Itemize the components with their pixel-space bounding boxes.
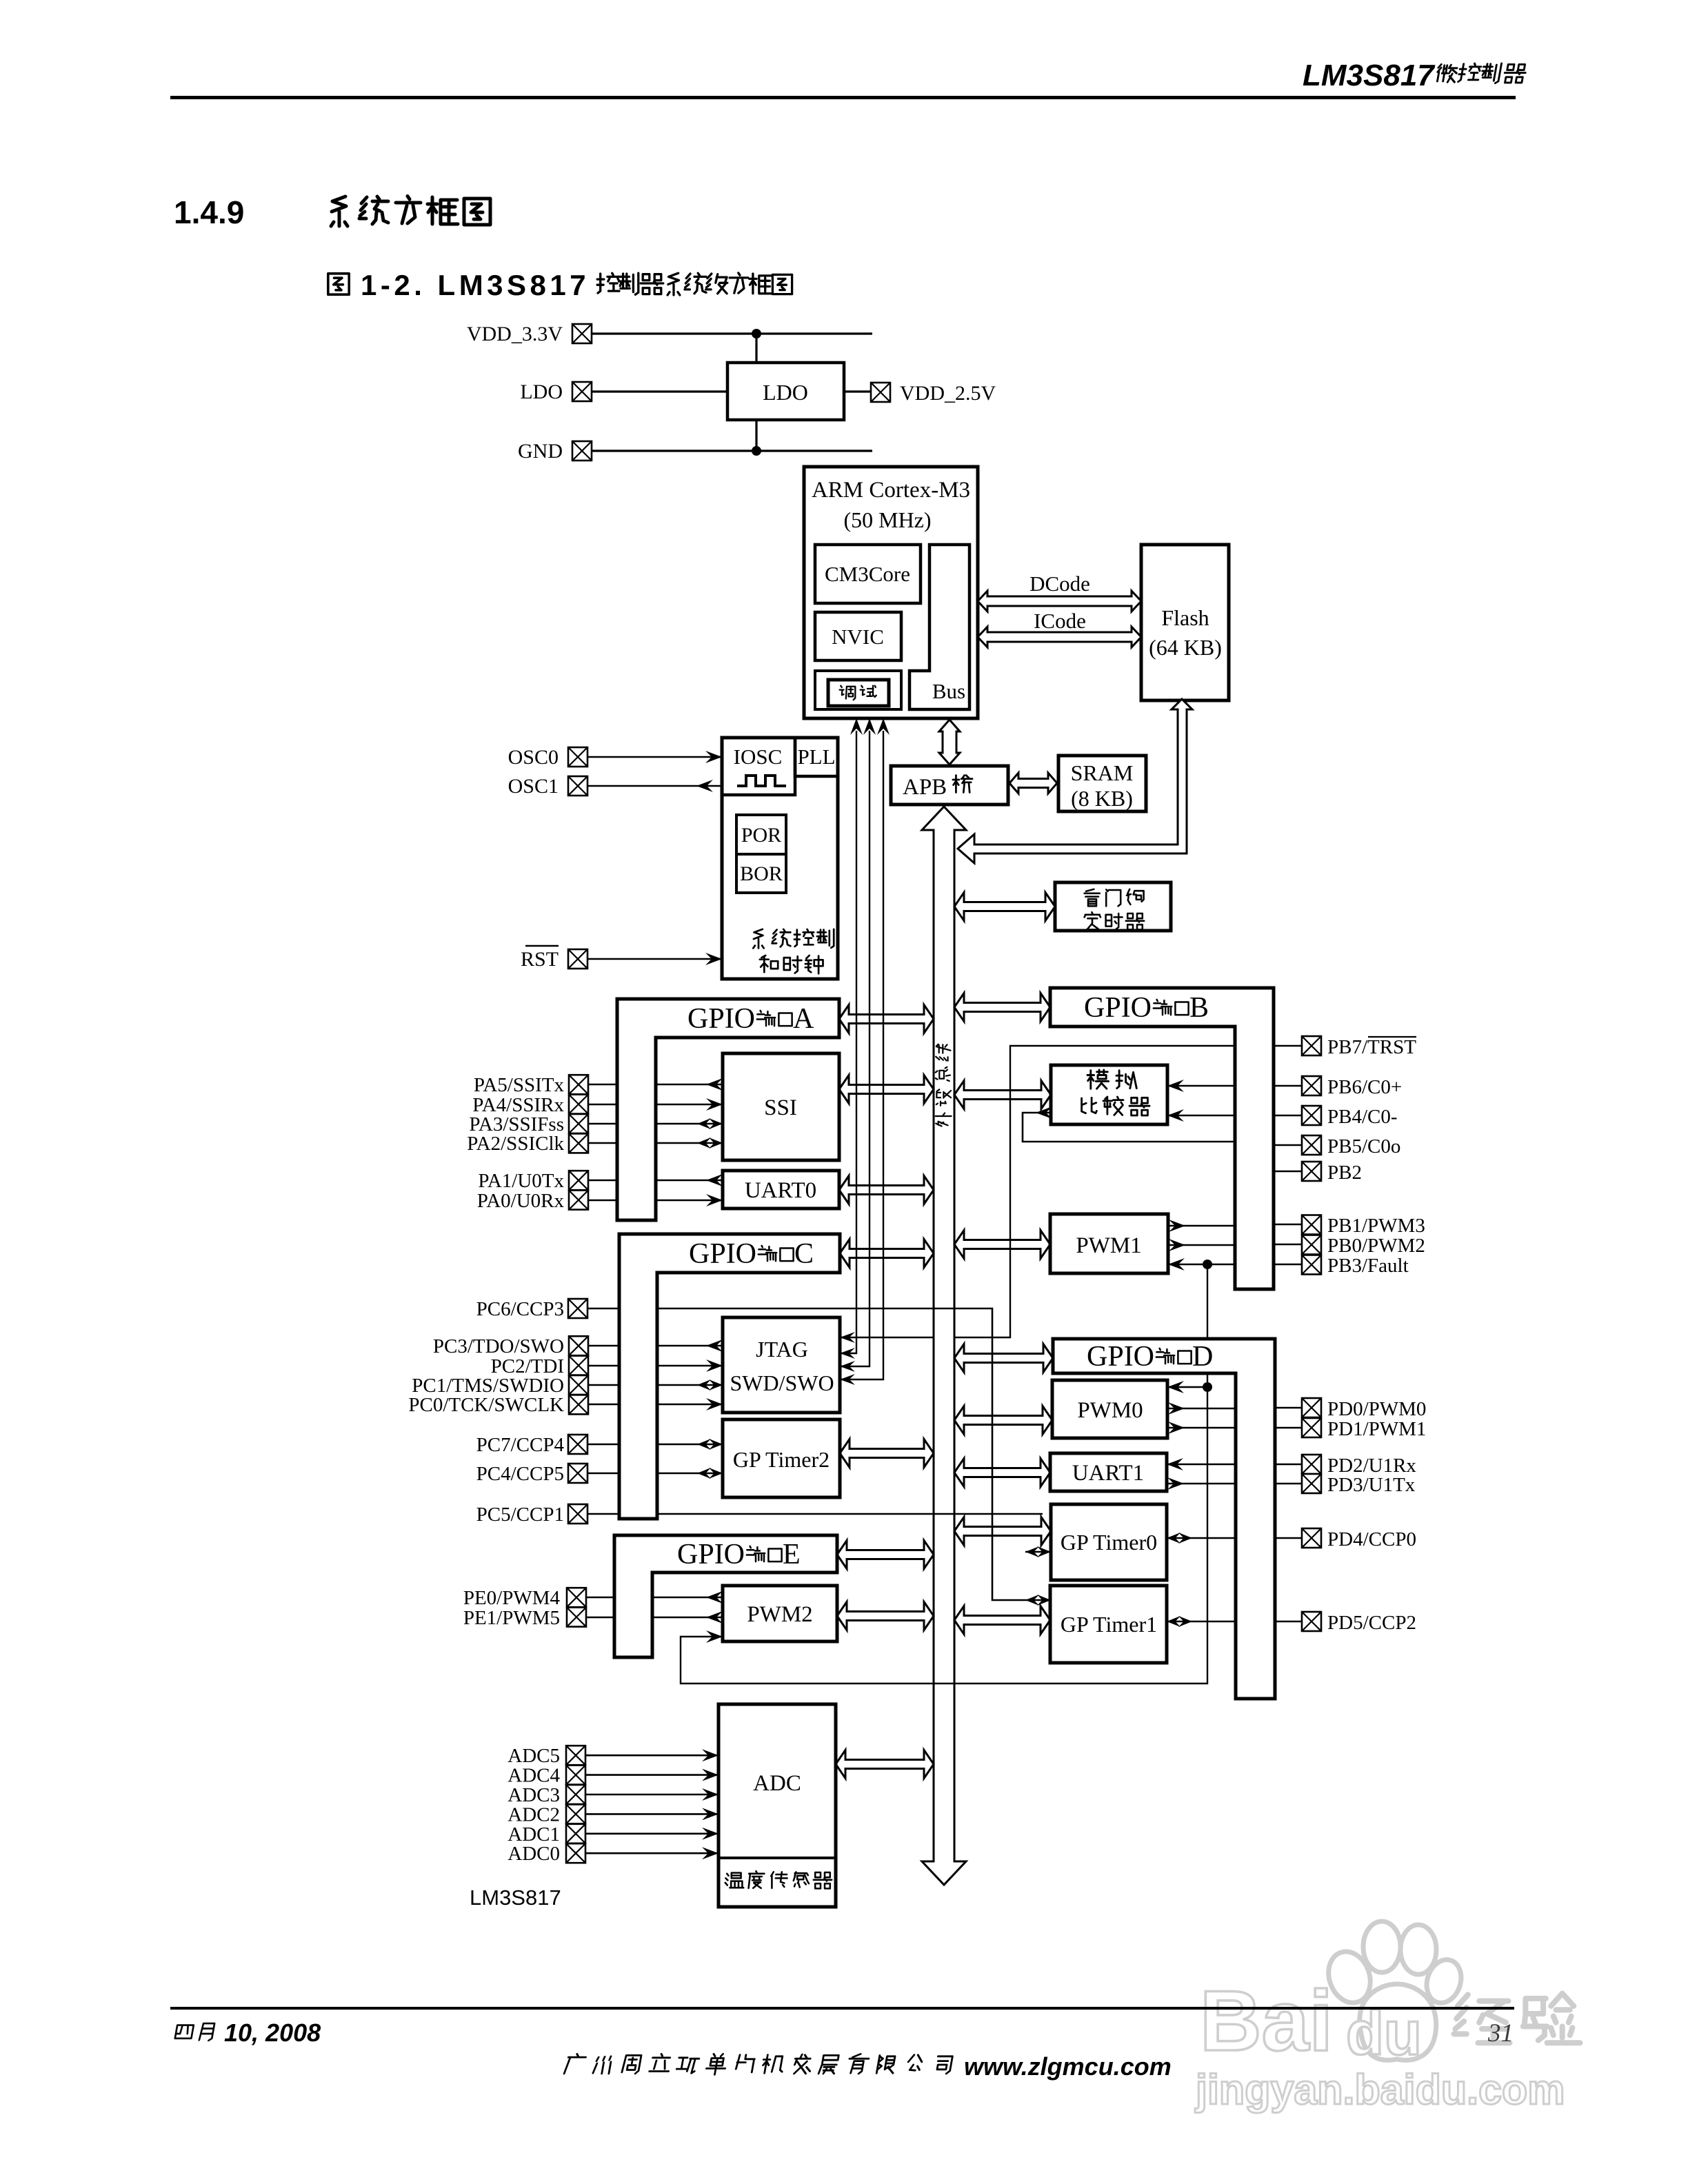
svg-text:UART0: UART0 <box>745 1178 816 1203</box>
pin PB0/PWM2 <box>1302 1235 1321 1255</box>
bus arrow PWM0 <box>954 1406 1052 1435</box>
node fault junction 1 <box>1203 1260 1212 1269</box>
watermark baidu paw <box>1322 1921 1467 2060</box>
wire PB0 <box>1274 1244 1302 1246</box>
svg-text:PC4/CCP5: PC4/CCP5 <box>476 1463 564 1485</box>
svg-text:JTAG: JTAG <box>756 1337 808 1362</box>
wire LDO output <box>844 390 871 392</box>
svg-text:PWM1: PWM1 <box>1076 1233 1141 1258</box>
block GP Timer2 <box>723 1419 840 1497</box>
svg-text:GPIO: GPIO <box>687 1003 755 1035</box>
svg-text:PC0/TCK/SWCLK: PC0/TCK/SWCLK <box>408 1394 564 1416</box>
svg-text:(64 KB): (64 KB) <box>1149 635 1222 660</box>
bus arrow ADC <box>836 1750 934 1779</box>
svg-text:PA0/U0Rx: PA0/U0Rx <box>477 1190 565 1212</box>
footer company <box>564 2054 586 2074</box>
block PWM1 <box>1050 1214 1168 1273</box>
bus arrow Bus-APB <box>939 720 960 765</box>
wire PA0 <box>588 1200 617 1202</box>
wire TRST from PB7 to JTAG <box>840 1337 934 1338</box>
block UART1 <box>1050 1453 1167 1491</box>
bus arrow PWM2 <box>837 1602 934 1630</box>
svg-text:1.4.9: 1.4.9 <box>174 194 244 230</box>
wire fault vertical upper <box>1207 1264 1208 1339</box>
svg-text:GP Timer2: GP Timer2 <box>733 1447 830 1472</box>
bus arrow GPTimer1 <box>954 1606 1050 1635</box>
bus arrow Flash-APB (L-shaped) <box>958 699 1192 863</box>
svg-text:DCode: DCode <box>1029 572 1090 596</box>
svg-text:UART1: UART1 <box>1072 1461 1144 1486</box>
bus DCode arrow <box>978 591 1141 611</box>
svg-text:ADC3: ADC3 <box>508 1784 560 1806</box>
wire ADC0 <box>585 1852 719 1854</box>
wire PA5 <box>588 1084 617 1086</box>
bus arrow GPIOC <box>840 1240 934 1268</box>
pin PB5/C0o <box>1302 1135 1321 1155</box>
svg-text:ARM Cortex-M3: ARM Cortex-M3 <box>812 478 970 503</box>
wire ADC3 <box>585 1794 719 1796</box>
svg-text:BOR: BOR <box>740 862 783 885</box>
block analog comparator 模拟比较器 <box>1051 1065 1167 1124</box>
block UART0 <box>723 1171 839 1209</box>
block POR <box>736 815 786 854</box>
svg-text:D: D <box>1192 1341 1213 1373</box>
pin PD2/U1Rx <box>1302 1455 1321 1474</box>
block GP Timer1 <box>1050 1586 1167 1663</box>
wire PD2 <box>1274 1464 1302 1466</box>
wire LDO input <box>592 390 727 392</box>
block CM3Core <box>815 545 921 603</box>
block PWM0 <box>1052 1380 1167 1438</box>
svg-text:PD1/PWM1: PD1/PWM1 <box>1327 1418 1426 1440</box>
node fault junction 2 <box>1203 1382 1212 1392</box>
svg-text:PD4/CCP0: PD4/CCP0 <box>1327 1528 1416 1550</box>
port GPIO端口A <box>617 999 839 1220</box>
svg-text:LDO: LDO <box>520 381 563 403</box>
block SSI <box>723 1053 839 1160</box>
svg-text:GPIO: GPIO <box>677 1539 745 1570</box>
svg-text:ADC: ADC <box>753 1771 801 1796</box>
block watchdog timer 看门狗定时器 <box>1055 882 1171 931</box>
svg-text:GP Timer0: GP Timer0 <box>1061 1530 1157 1555</box>
bus ICode arrow <box>978 627 1141 647</box>
svg-text:IOSC: IOSC <box>734 745 783 769</box>
bus arrow GPIOD <box>954 1344 1053 1373</box>
svg-text:PA2/SSIClk: PA2/SSIClk <box>467 1133 564 1155</box>
pin PB3/Fault <box>1302 1255 1321 1275</box>
bus arrow GPTimer2 <box>840 1439 934 1468</box>
svg-text:SWD/SWO: SWD/SWO <box>730 1371 834 1395</box>
block system control and clock <box>722 738 838 979</box>
svg-text:PB6/C0+: PB6/C0+ <box>1327 1076 1402 1098</box>
port GPIO端口C <box>619 1234 840 1519</box>
wire PB6 <box>1274 1085 1302 1087</box>
wire PB7 stub <box>1274 1045 1302 1047</box>
svg-text:jingyan.baidu.com: jingyan.baidu.com <box>1195 2066 1565 2113</box>
wire ADC2 <box>585 1813 719 1815</box>
bus 外设总线 (peripheral bus) <box>922 807 966 1885</box>
block PWM2 <box>723 1586 837 1641</box>
svg-text:ADC0: ADC0 <box>508 1843 560 1865</box>
wire PC5 to GP Timer0 <box>587 1513 619 1515</box>
svg-text:10, 2008: 10, 2008 <box>224 2019 321 2047</box>
svg-text:PE0/PWM4: PE0/PWM4 <box>463 1587 561 1609</box>
wire PB1 <box>1274 1224 1302 1226</box>
wire PC4 <box>587 1473 619 1475</box>
svg-text:PC7/CCP4: PC7/CCP4 <box>476 1434 565 1456</box>
block ADC <box>719 1704 836 1907</box>
wire debug line 2 <box>840 731 870 1366</box>
block GP Timer0 <box>1051 1504 1167 1580</box>
wire debug line 1 <box>840 731 856 1353</box>
block JTAG SWD/SWO <box>723 1317 840 1413</box>
svg-text:CM3Core: CM3Core <box>825 562 910 586</box>
wire PC2 <box>588 1365 619 1367</box>
pin PB4/C0- <box>1302 1106 1321 1125</box>
svg-text:PD3/U1Tx: PD3/U1Tx <box>1327 1474 1416 1496</box>
block BOR <box>736 854 786 893</box>
bridge APB <box>891 766 1008 805</box>
wire ADC4 <box>585 1774 719 1776</box>
svg-text:PB5/C0o: PB5/C0o <box>1327 1135 1400 1157</box>
wire PC0 <box>588 1404 619 1406</box>
bus arrow GPIOB <box>954 993 1050 1022</box>
svg-text:ADC1: ADC1 <box>508 1823 560 1846</box>
divider temperature sensor <box>719 1857 836 1859</box>
wire PB3 fault net <box>1274 1264 1302 1266</box>
svg-text:LDO: LDO <box>763 380 808 405</box>
wire PA1 <box>588 1180 617 1182</box>
svg-text:ADC2: ADC2 <box>508 1803 560 1826</box>
svg-text:PWM2: PWM2 <box>747 1602 812 1627</box>
wire fault vertical lower + to PWM0 and PWM2 <box>681 1373 1207 1684</box>
wire PD5 <box>1274 1621 1302 1623</box>
svg-text:OSC0: OSC0 <box>508 746 559 769</box>
svg-text:PA5/SSITx: PA5/SSITx <box>474 1074 565 1096</box>
bus arrow GPIOE <box>837 1541 934 1569</box>
wire PB2 stub <box>1274 1171 1302 1173</box>
pin PD1/PWM1 <box>1302 1418 1321 1437</box>
svg-text:C: C <box>794 1238 814 1270</box>
svg-text:PC3/TDO/SWO: PC3/TDO/SWO <box>433 1335 564 1357</box>
footer rule <box>170 2007 1514 2010</box>
svg-text:www.zlgmcu.com: www.zlgmcu.com <box>964 2052 1172 2081</box>
svg-text:LM3S817: LM3S817 <box>1303 59 1436 92</box>
svg-text:POR: POR <box>741 824 781 847</box>
bus arrow GPIOA <box>839 1005 934 1033</box>
svg-text:B: B <box>1189 992 1209 1024</box>
svg-text:Bus: Bus <box>932 679 965 703</box>
wire PC3 <box>588 1345 619 1347</box>
svg-text:PB2: PB2 <box>1327 1162 1362 1184</box>
port GPIO端口B <box>1050 988 1274 1289</box>
pin PB6/C0+ <box>1302 1076 1321 1095</box>
memory Flash 64KB <box>1141 545 1229 700</box>
bus arrow comparator <box>954 1081 1051 1109</box>
svg-text:PE1/PWM5: PE1/PWM5 <box>463 1607 560 1629</box>
wire PC1 <box>588 1384 619 1386</box>
svg-text:GPIO: GPIO <box>1087 1341 1154 1373</box>
svg-text:PC5/CCP1: PC5/CCP1 <box>476 1504 564 1526</box>
svg-text:ADC4: ADC4 <box>508 1765 560 1787</box>
wire PC7 <box>587 1444 619 1446</box>
wire PA3 <box>588 1123 617 1125</box>
wire ADC1 <box>585 1833 719 1835</box>
wire PA2 <box>588 1142 617 1144</box>
svg-text:(50 MHz): (50 MHz) <box>843 507 931 532</box>
pin PB7/TRST <box>1302 1036 1321 1055</box>
svg-text:PD5/CCP2: PD5/CCP2 <box>1327 1612 1416 1634</box>
svg-text:31: 31 <box>1487 2019 1514 2048</box>
svg-text:PB4/C0-: PB4/C0- <box>1327 1106 1398 1128</box>
wire ADC5 <box>585 1755 719 1757</box>
pin PB2 <box>1302 1162 1321 1181</box>
svg-text:PB1/PWM3: PB1/PWM3 <box>1327 1215 1425 1237</box>
svg-text:SSI: SSI <box>764 1095 797 1120</box>
svg-text:ICode: ICode <box>1034 609 1086 633</box>
block ARM Cortex-M3 <box>804 467 978 718</box>
wire OSC1 <box>587 785 722 787</box>
wire PD1 <box>1274 1427 1302 1429</box>
svg-text:GP Timer1: GP Timer1 <box>1061 1612 1157 1637</box>
svg-text:LM3S817: LM3S817 <box>470 1885 561 1910</box>
bus arrow watchdog <box>954 893 1055 921</box>
svg-text:GND: GND <box>518 440 563 463</box>
wire PB5 comparator output <box>1274 1144 1302 1146</box>
svg-text:GPIO: GPIO <box>689 1238 756 1270</box>
bus arrow PWM1 <box>954 1231 1050 1259</box>
wire PD4 <box>1274 1537 1302 1539</box>
svg-text:PB7/TRST: PB7/TRST <box>1327 1036 1416 1058</box>
svg-text:1-2. LM3S817: 1-2. LM3S817 <box>361 269 590 301</box>
wire PA4 <box>588 1104 617 1106</box>
watermark jingyan 经验 <box>1454 1994 1510 2043</box>
pin PD5/CCP2 <box>1302 1612 1321 1631</box>
pin PD3/U1Tx <box>1302 1474 1321 1493</box>
svg-text:PC6/CCP3: PC6/CCP3 <box>476 1298 564 1320</box>
svg-text:VDD_2.5V: VDD_2.5V <box>900 382 996 405</box>
block PLL <box>795 738 838 776</box>
svg-text:PB3/Fault: PB3/Fault <box>1327 1255 1409 1277</box>
svg-text:GPIO: GPIO <box>1084 992 1152 1024</box>
regulator LDO <box>727 363 844 420</box>
svg-text:NVIC: NVIC <box>832 625 884 649</box>
memory SRAM 8KB <box>1058 756 1146 811</box>
wire PD3 <box>1274 1483 1302 1485</box>
svg-text:SRAM: SRAM <box>1071 760 1134 785</box>
node junction VDD-LDO <box>752 329 761 338</box>
caption <box>328 274 349 294</box>
node junction GND-LDO <box>752 446 761 456</box>
bus arrow APB-SRAM <box>1009 773 1057 793</box>
wire PB4 <box>1274 1115 1302 1117</box>
bus arrow UART1 <box>954 1459 1050 1487</box>
svg-text:VDD_3.3V: VDD_3.3V <box>467 323 563 345</box>
block IOSC <box>722 738 795 795</box>
pin PD4/CCP0 <box>1302 1528 1321 1548</box>
wire PE0 <box>586 1597 614 1599</box>
svg-text:Bai: Bai <box>1200 1974 1333 2069</box>
svg-text:(8 KB): (8 KB) <box>1071 786 1133 811</box>
bus arrow SSI <box>839 1075 934 1104</box>
pin VDD_2.5V <box>871 383 890 402</box>
header rule <box>170 96 1516 99</box>
wire PE1 <box>586 1617 614 1619</box>
wire debug line 3 <box>840 731 883 1379</box>
bus arrow GPTimer0 <box>954 1517 1051 1546</box>
svg-text:E: E <box>783 1539 801 1570</box>
squarewave symbol <box>737 776 786 786</box>
port GPIO端口E <box>614 1535 837 1657</box>
svg-text:OSC1: OSC1 <box>508 775 559 798</box>
pin PB1/PWM3 <box>1302 1215 1321 1235</box>
block NVIC <box>815 612 901 660</box>
svg-text:PA1/U0Tx: PA1/U0Tx <box>478 1170 564 1192</box>
wire PC6 to GP Timer1 <box>587 1308 619 1310</box>
bus arrow UART0 <box>839 1176 934 1204</box>
svg-text:PB0/PWM2: PB0/PWM2 <box>1327 1235 1425 1257</box>
svg-text:Flash: Flash <box>1161 605 1209 630</box>
svg-text:A: A <box>793 1003 814 1035</box>
svg-text:PWM0: PWM0 <box>1077 1398 1143 1423</box>
svg-text:APB: APB <box>903 775 947 800</box>
svg-text:PLL: PLL <box>797 745 835 769</box>
port GPIO端口D <box>1053 1339 1275 1699</box>
wire VDD_3.3V rail <box>592 332 872 334</box>
pin PD0/PWM0 <box>1302 1398 1321 1417</box>
svg-text:PD0/PWM0: PD0/PWM0 <box>1327 1398 1426 1420</box>
svg-text:ADC5: ADC5 <box>508 1745 560 1767</box>
wire OSC0 <box>587 756 722 758</box>
wire GND rail <box>592 449 872 452</box>
wire RST <box>587 958 722 960</box>
footer date <box>175 2025 194 2039</box>
block Bus (L-shape) <box>910 545 969 709</box>
block debug 调试 <box>815 671 901 709</box>
svg-text:RST: RST <box>521 948 559 971</box>
wire PD0 <box>1274 1407 1302 1409</box>
